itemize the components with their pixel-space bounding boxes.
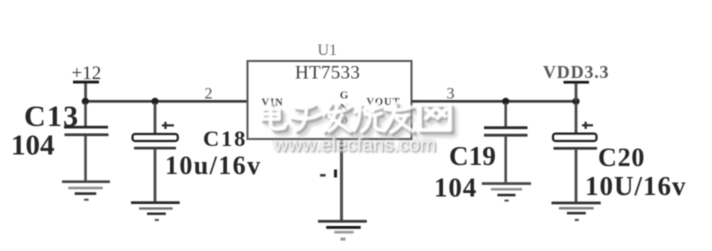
svg-text:104: 104 [11, 130, 55, 162]
svg-text:G: G [340, 90, 349, 102]
svg-text:C13: C13 [24, 100, 79, 133]
svg-text:C18: C18 [203, 126, 247, 151]
svg-text:10u/16v: 10u/16v [165, 151, 261, 180]
node: junction at C13 / +12 [82, 98, 89, 105]
capacitor C19 [484, 103, 528, 182]
ground (C19) [482, 182, 531, 201]
svg-text:C19: C19 [449, 141, 496, 171]
ground (C13) [62, 180, 110, 200]
svg-text:104: 104 [434, 173, 477, 203]
power VDD3.3 [543, 62, 609, 101]
watermark 电子发烧友网 www.elecfans.com [262, 103, 454, 137]
wire: main input net from +12/C13 to U1 pin 2 [84, 100, 249, 103]
svg-text:HT7533: HT7533 [295, 63, 360, 84]
power +12 [72, 63, 102, 102]
capacitor C18 (polarized) [133, 103, 178, 201]
node: junction at C19 [502, 98, 509, 105]
ground (U1 GND pin) [318, 220, 367, 241]
svg-text:2: 2 [205, 86, 213, 103]
node: junction at C18 [151, 98, 158, 105]
svg-text:C20: C20 [598, 143, 645, 172]
wire: output net from U1 pin 3 to VDD3.3 [412, 100, 577, 103]
svg-text:3: 3 [447, 86, 455, 103]
pin number 1 (U1 GND) [320, 170, 337, 178]
svg-text:www.elecfans.com: www.elecfans.com [273, 134, 436, 156]
svg-text:U1: U1 [318, 42, 338, 59]
svg-text:VDD3.3: VDD3.3 [543, 62, 609, 82]
wire: U1 GND pin to ground [340, 139, 343, 220]
pin name GND (vertical) [340, 90, 349, 127]
capacitor C13 [64, 103, 109, 181]
regulator U1 HT7533 [248, 61, 412, 139]
ground (C18) [131, 201, 180, 221]
svg-text:10U/16v: 10U/16v [585, 171, 687, 201]
node: junction at C20 / VDD3.3 [572, 98, 579, 105]
ground (C20) [552, 202, 601, 221]
capacitor C20 (polarized) [553, 103, 597, 202]
